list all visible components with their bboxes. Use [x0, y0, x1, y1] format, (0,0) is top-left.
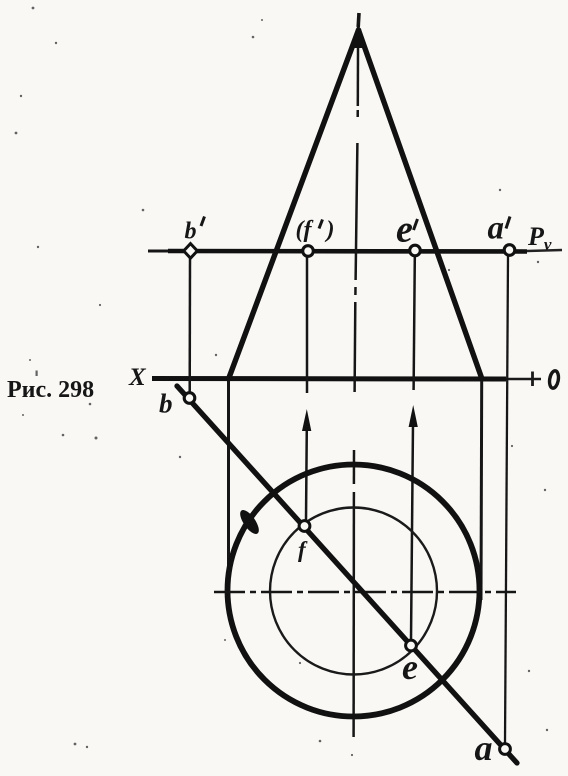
- svg-text:a: a: [488, 211, 505, 247]
- projection line a' to a: [505, 256, 508, 743]
- arrow head on e projection line: [409, 405, 418, 427]
- projection line from cone base right corner (tangent): [480, 381, 484, 600]
- point f': [303, 246, 314, 257]
- projection line f' to f (with gap above arrow): [306, 256, 307, 520]
- projection line from cone base left corner (tangent): [227, 381, 230, 592]
- apex blob: [352, 23, 366, 48]
- svg-text:b: b: [159, 389, 173, 419]
- svg-text:Рис. 298: Рис. 298: [7, 377, 94, 403]
- trace line Pv: [148, 250, 562, 252]
- circle: cone base (top view): [228, 465, 480, 717]
- svg-text:e: e: [402, 647, 418, 687]
- cone front view: left side: [229, 30, 359, 379]
- label 0 at axis end: [548, 370, 559, 389]
- svg-text:X: X: [128, 364, 147, 391]
- axis X: [152, 372, 541, 387]
- point f: [299, 521, 310, 532]
- arrow head on f projection line: [302, 409, 311, 431]
- projection line b' to b: [188, 258, 191, 393]
- point e: [406, 640, 417, 651]
- line a-b (horizontal projection): [177, 386, 517, 763]
- point a: [500, 744, 511, 755]
- cone front view: right side: [359, 30, 483, 379]
- svg-text:b: b: [185, 219, 197, 245]
- projection line e' to e (with gap above arrow): [411, 257, 415, 640]
- point b: [184, 393, 195, 404]
- horizontal center-line of circle: [214, 591, 516, 594]
- point b': [184, 244, 198, 259]
- svg-text:(f: (f: [296, 217, 314, 243]
- circle: section parallel (top view): [270, 508, 437, 675]
- svg-text:e: e: [396, 209, 413, 251]
- ink blob on circle (arrow-like mark): [237, 507, 263, 537]
- point a': [504, 245, 515, 256]
- point e': [410, 245, 421, 256]
- svg-text:): ): [325, 217, 335, 243]
- cone axis center-line (vertical): [354, 13, 359, 737]
- svg-text:a: a: [475, 728, 493, 768]
